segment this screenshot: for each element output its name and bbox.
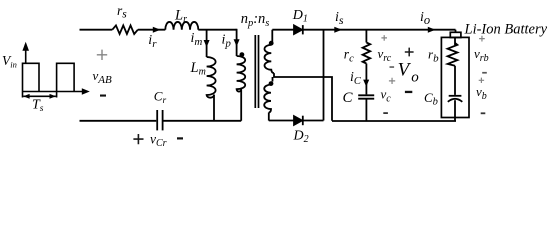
svg-text:D1: D1 — [292, 8, 308, 25]
arrow i_o — [428, 27, 436, 33]
svg-text:D2: D2 — [293, 129, 309, 146]
svg-text:rs: rs — [117, 3, 127, 21]
arrow i_r — [153, 27, 161, 33]
label - of V_o — [405, 91, 412, 93]
resistor r_c — [363, 43, 371, 64]
wire bottom rail right of C_r — [164, 120, 242, 122]
label + of v_rb — [479, 36, 485, 42]
wire rectifier junction vertical — [323, 30, 325, 121]
label - of v_AB — [100, 95, 106, 97]
svg-text:rc: rc — [344, 47, 354, 65]
arrow i_p — [234, 39, 240, 46]
transformer dot primary — [240, 52, 245, 57]
svg-text:C: C — [343, 90, 354, 106]
diode D1 — [294, 25, 302, 34]
wire primary top lead — [236, 29, 238, 56]
svg-text:rb: rb — [428, 47, 439, 65]
capacitor C_b — [449, 95, 462, 97]
wire r_c to C — [365, 64, 367, 95]
arrow i_s — [334, 27, 342, 33]
waveform horizontal axis — [23, 91, 87, 93]
battery box — [441, 37, 469, 117]
wire top rail left segment — [80, 29, 113, 31]
label - of v_rc — [390, 66, 395, 68]
wire D2 cathode — [303, 120, 324, 122]
svg-text:np:ns: np:ns — [241, 11, 270, 29]
arrow i_m — [204, 40, 210, 47]
label + of v_rc — [381, 35, 387, 41]
svg-text:vb: vb — [476, 84, 487, 102]
label - of v_rb — [482, 72, 487, 74]
transformer core — [254, 35, 256, 108]
inductor L_r — [165, 22, 198, 30]
capacitor C — [358, 94, 374, 96]
waveform axis arrowhead right — [82, 88, 90, 94]
diode D2 — [294, 116, 302, 125]
waveform T_s arrowhead right — [50, 94, 56, 99]
svg-text:Cb: Cb — [424, 90, 438, 108]
label + of v_b — [479, 78, 484, 83]
svg-text:io: io — [420, 10, 430, 27]
wire D1 anode — [272, 29, 294, 31]
waveform vertical axis — [25, 44, 27, 63]
wire C_b bottom — [454, 100, 456, 121]
label + of v_AB — [97, 50, 107, 60]
svg-text:im: im — [191, 31, 203, 48]
resistor r_b — [448, 43, 458, 66]
wire r_c branch top — [365, 30, 367, 43]
svg-text:Ts: Ts — [32, 98, 44, 115]
label - of v_b — [481, 112, 486, 114]
capacitor C_r — [156, 110, 158, 130]
wire L_m branch lead — [206, 30, 208, 57]
transformer primary winding — [237, 56, 246, 92]
wire battery internal top — [454, 38, 456, 46]
battery terminal bump — [450, 32, 461, 37]
svg-text:Vo: Vo — [398, 60, 420, 86]
wire top rail right — [303, 29, 456, 31]
wire C bottom — [365, 99, 367, 121]
svg-text:Vin: Vin — [2, 53, 17, 70]
svg-text:is: is — [335, 10, 344, 27]
wire D2 anode — [269, 120, 294, 122]
svg-text:Lr: Lr — [174, 7, 187, 25]
svg-text:iC: iC — [350, 70, 362, 87]
svg-text:ir: ir — [148, 33, 157, 50]
waveform pulse 2 — [57, 63, 75, 97]
waveform pulse 1 — [23, 63, 40, 97]
label - of v_Cr — [177, 137, 183, 139]
wire secondary top lead — [271, 30, 273, 42]
wire top rail after L_r — [198, 29, 236, 31]
label + of V_o — [405, 48, 414, 57]
waveform axis arrowhead top — [22, 42, 29, 51]
inductor L_m — [207, 57, 216, 98]
waveform T_s arrow shaft — [23, 95, 56, 97]
svg-text:Lm: Lm — [190, 60, 206, 78]
wire top rail into battery — [455, 30, 457, 33]
wire r_b to C_b — [454, 66, 456, 95]
label + of v_Cr — [133, 134, 143, 144]
svg-text:vAB: vAB — [93, 68, 113, 86]
transformer dot secondary top — [269, 41, 274, 46]
arrow i_C — [363, 80, 369, 87]
transformer dot secondary bottom — [269, 81, 274, 86]
wire secondary bottom entry — [272, 77, 274, 82]
wire secondary bottom lead — [268, 112, 270, 120]
wire top rail after r_s — [138, 29, 166, 31]
svg-text:Cr: Cr — [154, 89, 167, 107]
label - of v_c — [383, 112, 388, 114]
svg-text:vc: vc — [381, 87, 392, 105]
wire center tap — [274, 73, 332, 121]
transformer secondary winding bottom — [264, 85, 271, 113]
svg-text:vCr: vCr — [150, 132, 167, 150]
waveform T_s arrowhead left — [23, 94, 29, 99]
svg-text:vrc: vrc — [378, 46, 392, 64]
wire output bottom rail — [332, 120, 456, 122]
svg-text:vrb: vrb — [474, 46, 489, 64]
svg-text:ip: ip — [222, 33, 232, 50]
wire bottom rail left segment — [80, 120, 157, 122]
label + of v_c — [389, 78, 395, 84]
resistor r_s — [112, 25, 138, 34]
svg-text:Li-Ion Battery: Li-Ion Battery — [464, 21, 548, 37]
wire primary bottom lead — [240, 89, 242, 121]
transformer secondary winding top — [264, 45, 274, 73]
wire L_m bottom lead — [213, 95, 215, 121]
